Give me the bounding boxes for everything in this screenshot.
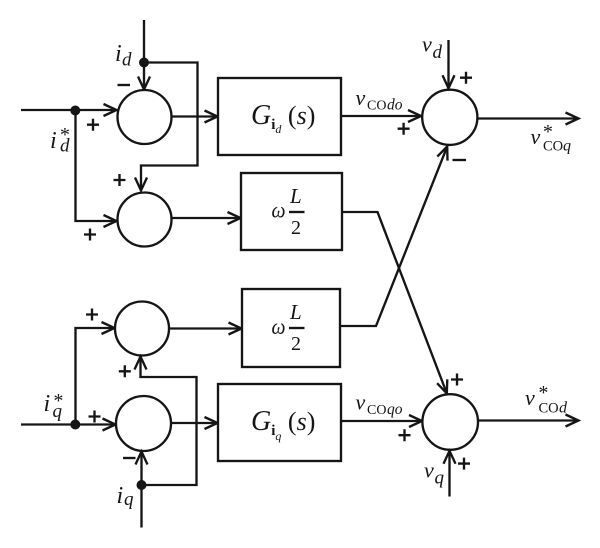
svg-text:q: q <box>435 468 445 489</box>
wire summer 5 output vCOq* <box>477 113 578 125</box>
block wL/2 upper <box>241 173 342 250</box>
fraction bar in upper wL/2 block <box>289 211 305 213</box>
wire i_d* input horizontal <box>21 104 117 116</box>
svg-text:v: v <box>356 390 366 415</box>
node i_d junction dot <box>139 58 149 68</box>
sign minus at summer 1 top <box>118 84 131 86</box>
wire i_q* input horizontal <box>21 419 116 431</box>
node i_q junction dot <box>137 480 147 490</box>
svg-text:v: v <box>424 458 434 483</box>
sign minus at summer 5 bottom <box>453 159 467 161</box>
node i_q* junction dot <box>70 420 80 430</box>
svg-text:i: i <box>44 391 51 417</box>
svg-text:d: d <box>60 136 70 157</box>
svg-text:i: i <box>50 128 57 154</box>
sign plus at summer 6 left <box>399 429 411 441</box>
svg-text:ω: ω <box>272 198 286 223</box>
wire summer 2 output to wL/2 block <box>172 212 241 224</box>
sign plus at summer 2 top <box>114 174 126 186</box>
wire i_q* branch up to summer 3 <box>76 322 115 425</box>
wire Gid output vCOdo to summer 5 <box>341 110 421 122</box>
sign plus at summer 3 left <box>86 309 98 321</box>
summer circle 3 (q-axis decouple) <box>115 302 169 356</box>
wire lower wL/2 output cross-coupling diagonal to summer 5 <box>340 147 448 327</box>
svg-text:2: 2 <box>291 217 301 239</box>
summer circle 4 (q-axis error) <box>116 396 171 451</box>
wire summer 1 output to Gid block <box>172 111 218 123</box>
svg-text:q: q <box>563 138 571 155</box>
sign minus at summer 4 bottom <box>123 457 136 459</box>
svg-text:d: d <box>122 50 132 71</box>
summer circle 2 (d-axis decouple) <box>118 193 172 247</box>
wire Giq output vCOqo to summer 6 <box>341 415 422 427</box>
svg-text:CO: CO <box>367 403 386 418</box>
fraction bar in lower wL/2 block <box>289 327 305 329</box>
svg-text:d: d <box>559 400 568 417</box>
svg-text:do: do <box>387 97 403 114</box>
wire i_q feedback to summer 3 bottom <box>135 357 197 486</box>
wire upper wL/2 output cross-coupling diagonal to summer 6 <box>342 212 447 393</box>
svg-text:i: i <box>115 41 122 67</box>
svg-text:v: v <box>525 385 535 410</box>
wire summer 3 output to lower wL/2 block <box>169 323 242 335</box>
wire i_q to summer 4 bottom <box>136 452 148 486</box>
wire summer 6 output vCOd* <box>478 415 579 427</box>
svg-text:v: v <box>422 32 432 57</box>
block Giq(s) <box>218 384 341 461</box>
block Gid(s) <box>218 78 341 155</box>
wire i_d* branch down to summer 2 <box>76 111 117 228</box>
sign plus at summer 4 left <box>89 411 101 423</box>
summer circle 1 (d-axis error) <box>118 90 172 144</box>
sign plus at summer 6 bottom <box>458 458 470 470</box>
svg-text:2: 2 <box>291 333 301 355</box>
svg-text:q: q <box>124 489 134 510</box>
sign plus at summer 5 top <box>460 72 472 84</box>
wire i_d feedforward to summer 2 <box>135 63 198 191</box>
sign plus at summer 6 top <box>451 374 463 386</box>
wire v_q input vertical <box>444 451 456 497</box>
svg-text:CO: CO <box>543 139 563 155</box>
svg-text:L: L <box>289 184 302 208</box>
svg-text:CO: CO <box>539 401 559 417</box>
svg-text:i: i <box>117 483 124 509</box>
svg-text:v: v <box>531 124 541 149</box>
sign plus at summer 2 left <box>84 229 96 241</box>
svg-text:v: v <box>356 85 366 110</box>
sign plus at summer 3 bottom <box>119 365 131 377</box>
svg-text:d: d <box>433 42 443 63</box>
summer circle 5 (q-axis output summer) <box>422 90 477 145</box>
wire summer 4 output to Giq block <box>171 417 218 429</box>
svg-text:L: L <box>289 300 302 324</box>
sign plus at summer 5 left <box>398 123 410 135</box>
wire v_d input vertical <box>443 40 455 88</box>
summer circle 6 (d-axis output summer) <box>422 394 478 450</box>
sign plus at summer 1 left <box>87 119 99 131</box>
svg-text:qo: qo <box>387 401 403 418</box>
block wL/2 lower <box>242 289 340 367</box>
wire i_d input vertical <box>138 20 150 90</box>
wire i_q input tail <box>140 485 142 528</box>
svg-text:q: q <box>53 401 63 422</box>
svg-text:CO: CO <box>367 99 386 114</box>
node i_d* junction dot <box>70 106 80 116</box>
svg-text:ω: ω <box>272 314 286 339</box>
